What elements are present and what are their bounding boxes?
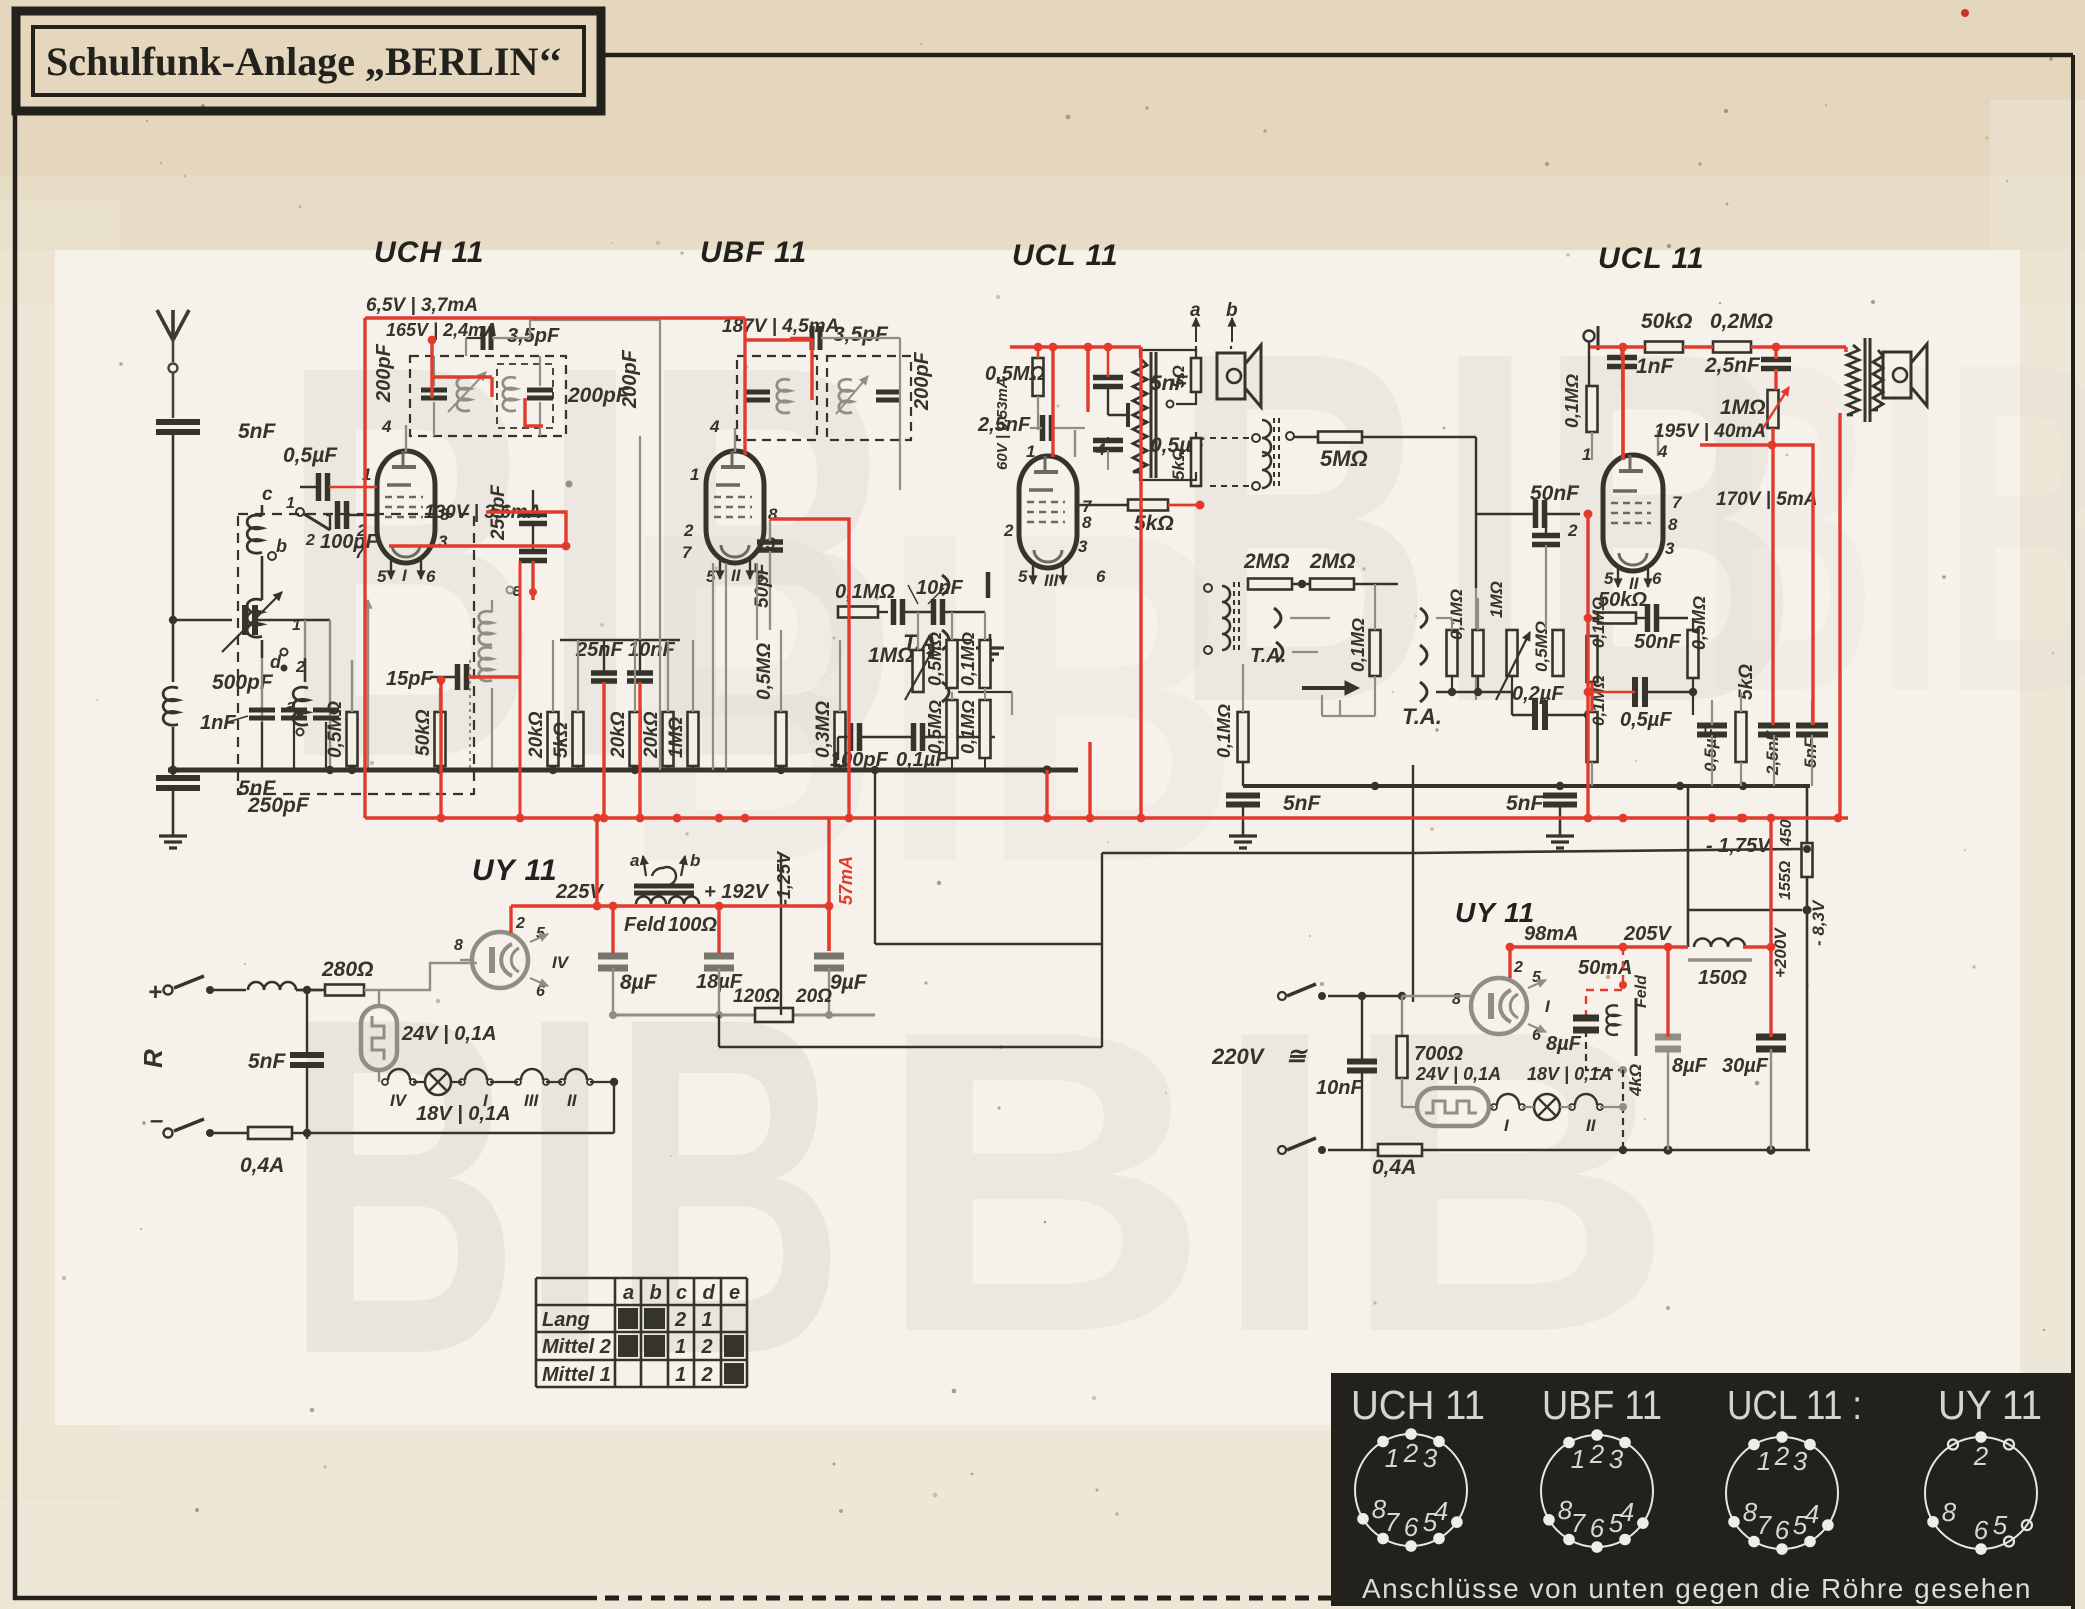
svg-text:5nF: 5nF xyxy=(1506,792,1545,815)
wire psu right top xyxy=(1688,786,1807,1150)
svg-text:T.A.: T.A. xyxy=(1250,645,1286,667)
svg-text:250pF: 250pF xyxy=(247,794,310,817)
svg-text:5: 5 xyxy=(1604,569,1614,588)
svg-text:- 1,75V: - 1,75V xyxy=(1706,835,1772,857)
capacitor 1nF group xyxy=(200,710,339,770)
svg-text:0,4A: 0,4A xyxy=(240,1154,284,1177)
svg-text:Schulfunk-Anlage „BERLIN‘‘: Schulfunk-Anlage „BERLIN‘‘ xyxy=(46,39,562,84)
capacitor 0,5uF xyxy=(283,444,365,501)
coil osc lower xyxy=(470,647,492,770)
svg-text:e: e xyxy=(729,1282,740,1304)
output transformer right xyxy=(1847,338,1883,422)
svg-text:UCH 11: UCH 11 xyxy=(1351,1382,1485,1428)
svg-text:0,5MΩ: 0,5MΩ xyxy=(925,700,945,754)
tube socket UCH11 xyxy=(1355,1434,1467,1546)
capacitor 2,5nF r2 xyxy=(1758,726,1790,787)
label +192V xyxy=(704,881,770,903)
capacitor 0,5uF ucl xyxy=(1093,434,1205,470)
resistor 450/155 Ohm chain xyxy=(1777,786,1813,915)
border frame line bottom xyxy=(13,1596,1335,1601)
svg-text:5: 5 xyxy=(1609,1508,1624,1538)
coil IF1b xyxy=(503,377,516,411)
svg-text:1: 1 xyxy=(1026,442,1035,461)
capacitor 10nF psu2 xyxy=(1316,996,1377,1150)
output jacks dashed xyxy=(1210,434,1260,490)
svg-text:50kΩ: 50kΩ xyxy=(413,709,434,756)
antenna xyxy=(157,310,189,418)
red wire UCL-left anode network xyxy=(1010,343,1141,818)
svg-text:2: 2 xyxy=(683,521,694,540)
svg-text:0,1MΩ: 0,1MΩ xyxy=(1562,374,1582,428)
svg-text:T.A.: T.A. xyxy=(1402,704,1442,729)
svg-text:1MΩ: 1MΩ xyxy=(868,644,914,667)
label 200pF right xyxy=(567,384,630,407)
phone plug xyxy=(1302,681,1375,716)
svg-text:1MΩ: 1MΩ xyxy=(1720,396,1766,419)
capacitor 0,5uF r2 xyxy=(1697,700,1727,786)
svg-text:0,5MΩ: 0,5MΩ xyxy=(754,643,775,700)
ground symbol antenna xyxy=(159,822,187,848)
svg-text:UCL 11: UCL 11 xyxy=(1012,239,1119,272)
resistor 50kOhm mid xyxy=(1598,589,1647,624)
svg-text:d: d xyxy=(703,1282,716,1304)
pin labels UBF11 xyxy=(682,417,778,586)
wire caps 25nF top xyxy=(560,639,680,641)
svg-text:50pF: 50pF xyxy=(752,562,773,608)
svg-text:5nF: 5nF xyxy=(1801,737,1820,768)
resistor 0,3MOhm xyxy=(813,640,846,770)
wire tuner verticals xyxy=(262,600,372,770)
svg-text:0,2µF: 0,2µF xyxy=(1512,683,1564,705)
svg-text:b: b xyxy=(690,851,700,870)
svg-text:0,4A: 0,4A xyxy=(1372,1156,1416,1179)
svg-text:0,2MΩ: 0,2MΩ xyxy=(1710,310,1773,333)
terminal T.A. group mid xyxy=(903,572,1012,715)
svg-text:8: 8 xyxy=(1452,991,1461,1008)
wire mix bus xyxy=(1436,598,1512,696)
tube UCL11 right xyxy=(1603,430,1663,593)
ballast tube right xyxy=(1402,1064,1501,1126)
capacitor 8uF psu3 xyxy=(1655,1037,1708,1150)
potentiometer 1MOhm r xyxy=(1720,387,1789,433)
tube socket UBF11 xyxy=(1541,1435,1653,1547)
red wire IF1 anode taps xyxy=(428,336,543,426)
svg-text:a: a xyxy=(630,851,639,870)
resistor 0,1MOhm r2 xyxy=(1587,675,1609,786)
svg-text:3: 3 xyxy=(1078,537,1088,556)
potentiometer 1MOhm mid xyxy=(868,644,934,700)
svg-text:0,1MΩ: 0,1MΩ xyxy=(1348,618,1368,672)
svg-text:7: 7 xyxy=(1571,1508,1587,1538)
red wire AVC caps xyxy=(604,682,640,818)
choke 150 Ohm xyxy=(1688,939,1752,990)
red dashed box 50mA xyxy=(1586,947,1627,1018)
svg-text:7: 7 xyxy=(1757,1510,1773,1540)
red wire UCL-right grid/anode network xyxy=(1584,343,1846,818)
svg-text:BIB: BIB xyxy=(1700,265,2085,790)
tube UCL11 left xyxy=(1019,430,1077,590)
svg-text:5: 5 xyxy=(1423,1507,1438,1537)
wire pin1 red stub xyxy=(365,486,377,489)
svg-text:25nF: 25nF xyxy=(575,639,623,661)
svg-text:c: c xyxy=(676,1282,687,1304)
svg-text:2: 2 xyxy=(295,659,305,676)
capacitor 5nF psu xyxy=(248,986,324,1139)
svg-text:b: b xyxy=(276,536,287,556)
svg-text:7: 7 xyxy=(1385,1507,1401,1537)
svg-text:8µF: 8µF xyxy=(620,971,658,994)
resistor 5kΩ at x578 xyxy=(551,640,584,770)
resistor mix2 xyxy=(1473,630,1484,676)
psu gray bus xyxy=(609,1011,875,1019)
svg-text:3: 3 xyxy=(1609,1444,1624,1474)
switch contact b xyxy=(268,536,287,560)
node antenna-tuner xyxy=(169,616,177,624)
wire psu bottom xyxy=(303,1078,618,1137)
wire switch c to cap xyxy=(326,515,330,530)
resistor 0,1MOhm low xyxy=(958,688,991,770)
svg-text:15pF: 15pF xyxy=(386,668,433,690)
resistor 20kΩ at x553 xyxy=(526,640,559,770)
svg-text:50mA: 50mA xyxy=(1578,957,1632,979)
wire 5M down xyxy=(1475,437,1477,700)
svg-text:195V | 40mA: 195V | 40mA xyxy=(1654,421,1766,442)
band switch table xyxy=(536,1278,747,1387)
terminal minus xyxy=(150,1107,248,1138)
label 57mA rot xyxy=(836,856,856,905)
capacitor row mixer xyxy=(830,723,995,771)
label UCH11 xyxy=(374,236,484,269)
svg-text:280Ω: 280Ω xyxy=(321,958,373,981)
svg-text:0,1MΩ: 0,1MΩ xyxy=(1447,589,1466,640)
svg-text:2: 2 xyxy=(1973,1441,1989,1471)
svg-text:2: 2 xyxy=(515,915,525,932)
coil antenna bottom xyxy=(163,620,178,770)
svg-text:8: 8 xyxy=(1942,1497,1957,1527)
title box xyxy=(16,11,601,111)
tube UCH11 xyxy=(377,425,435,585)
svg-text:1: 1 xyxy=(1757,1446,1771,1476)
label UCL11 left xyxy=(1012,239,1119,272)
resistor 2MOhm a xyxy=(1243,550,1310,590)
svg-text:Anschlüsse von unten gegen die: Anschlüsse von unten gegen die Röhre ges… xyxy=(1362,1573,2032,1604)
svg-text:1: 1 xyxy=(286,495,295,512)
resistor 700 Ohm xyxy=(1397,1036,1464,1107)
svg-text:d: d xyxy=(270,652,282,672)
svg-text:6,5V | 3,7mA: 6,5V | 3,7mA xyxy=(366,295,478,316)
svg-text:4kΩ: 4kΩ xyxy=(1626,1064,1645,1097)
svg-text:a: a xyxy=(1190,300,1201,321)
tube UY11 left xyxy=(472,932,528,988)
svg-text:2MΩ: 2MΩ xyxy=(1243,550,1290,573)
svg-text:III: III xyxy=(524,1091,539,1110)
wire tube8 right xyxy=(1402,996,1471,1036)
label 60V rot xyxy=(994,377,1011,470)
resistor 0,2MOhm top xyxy=(1710,310,1773,353)
svg-text:1: 1 xyxy=(675,1364,686,1386)
label 200pF rot right xyxy=(911,351,933,411)
svg-text:5nF: 5nF xyxy=(248,1050,287,1073)
red wire PSU right 205V rail xyxy=(1506,814,1776,1037)
label 250pF bottom xyxy=(247,794,310,817)
coil mains filter xyxy=(248,982,322,990)
node ground-bus-left xyxy=(169,766,178,775)
label R mains xyxy=(138,1049,168,1068)
microphone symbol xyxy=(1584,326,1599,386)
resistor 0,1MOhm mix1 xyxy=(1447,589,1467,676)
svg-text:3: 3 xyxy=(438,532,448,551)
svg-text:2: 2 xyxy=(1513,959,1523,976)
svg-text:5: 5 xyxy=(1993,1510,2008,1540)
terminal plus xyxy=(148,976,246,1006)
label 4kOhm xyxy=(1626,1064,1645,1097)
svg-text:5: 5 xyxy=(377,567,387,586)
label -125V rot xyxy=(774,850,794,905)
capacitor IF2b xyxy=(836,376,900,414)
lamp chain right xyxy=(1489,1064,1623,1135)
wire pin7 to 5k xyxy=(1077,501,1205,510)
switch contact e xyxy=(507,580,538,600)
terminal jacks TA mid xyxy=(1402,608,1442,729)
wire mixer mid xyxy=(918,612,985,650)
switch contact d xyxy=(270,617,305,676)
svg-text:150Ω: 150Ω xyxy=(1698,967,1747,989)
svg-text:0,5MΩ: 0,5MΩ xyxy=(325,701,346,758)
resistor 120 Ohm psu xyxy=(733,986,832,1022)
svg-text:57mA: 57mA xyxy=(836,856,856,905)
svg-text:1: 1 xyxy=(292,617,301,634)
secondary 5kOhm xyxy=(1140,432,1201,486)
svg-text:9µF: 9µF xyxy=(830,971,868,994)
svg-text:+: + xyxy=(148,979,162,1006)
svg-text:6: 6 xyxy=(1974,1515,1989,1545)
resistor 0,1MOhm mid2 xyxy=(958,632,991,688)
svg-text:2MΩ: 2MΩ xyxy=(1309,550,1356,573)
svg-text:0,5µF: 0,5µF xyxy=(1620,709,1672,731)
capacitor 5nF ucl xyxy=(1093,347,1189,427)
svg-text:UCL 11: UCL 11 xyxy=(1598,242,1705,275)
svg-text:a: a xyxy=(286,696,296,716)
potentiometer 1MOhm mix xyxy=(1487,581,1530,700)
capacitor 3,5pF b xyxy=(790,323,900,350)
svg-text:–: – xyxy=(150,1107,163,1134)
switch contact a xyxy=(286,696,304,736)
border frame line left xyxy=(13,108,18,1600)
ground bus left xyxy=(168,765,1078,774)
svg-text:a: a xyxy=(623,1282,634,1304)
svg-text:7: 7 xyxy=(682,543,693,562)
svg-text:0,1MΩ: 0,1MΩ xyxy=(1589,597,1608,648)
label +200V rot xyxy=(1771,927,1790,978)
label 225V xyxy=(555,881,604,903)
svg-text:2: 2 xyxy=(1403,1438,1419,1468)
capacitor IF2a xyxy=(746,379,790,413)
svg-text:II: II xyxy=(567,1091,578,1110)
svg-text:50nF: 50nF xyxy=(1634,631,1681,653)
ground bus right section xyxy=(1243,782,1810,790)
band switch dashed box xyxy=(238,514,474,794)
svg-text:20kΩ: 20kΩ xyxy=(641,711,662,759)
svg-text:0,1MΩ: 0,1MΩ xyxy=(958,632,978,686)
capacitor 5nF lower xyxy=(156,770,277,822)
fuse 0,4A right xyxy=(1372,1144,1810,1179)
svg-text:2,5nF: 2,5nF xyxy=(1704,354,1761,377)
svg-text:450: 450 xyxy=(1778,819,1795,847)
svg-text:6: 6 xyxy=(1404,1512,1419,1542)
switch mains a xyxy=(1278,984,1406,1000)
svg-text:UBF 11: UBF 11 xyxy=(700,236,807,269)
svg-text:120Ω: 120Ω xyxy=(733,986,780,1007)
resistor 0,5MOhm xyxy=(325,660,358,770)
svg-text:165V | 2,4mA: 165V | 2,4mA xyxy=(386,320,497,340)
svg-text:1MΩ: 1MΩ xyxy=(1487,581,1506,618)
capacitor 0,2uF xyxy=(1512,683,1592,730)
svg-text:2,5nF: 2,5nF xyxy=(1763,730,1782,776)
capacitor 50pF xyxy=(752,520,783,630)
svg-text:1: 1 xyxy=(702,1309,713,1331)
svg-text:0,1MΩ: 0,1MΩ xyxy=(958,700,978,754)
svg-text:4: 4 xyxy=(709,417,720,436)
BIB watermarks xyxy=(280,247,2085,1454)
wire psu misc xyxy=(719,765,1413,1047)
microphone transformer xyxy=(1204,582,1239,654)
capacitor 5nF gnd mid xyxy=(1506,792,1577,822)
resistor 50kOhm top xyxy=(1641,310,1692,353)
svg-text:6: 6 xyxy=(1096,567,1106,586)
speaker right xyxy=(1883,344,1927,406)
red wire osc feed xyxy=(437,561,533,818)
switch contact c xyxy=(262,484,330,549)
red wire B+ feed UCH top run xyxy=(365,318,745,818)
label 130V/3,6mA xyxy=(424,502,541,523)
capacitor 10nF xyxy=(627,639,675,818)
capacitor 2,5nF r xyxy=(1704,347,1791,377)
capacitor 15pF xyxy=(386,664,467,690)
label 6,5V/3,7mA xyxy=(366,295,478,316)
resistor 20kΩ at x668 xyxy=(641,640,674,770)
pin labels UCL11 right xyxy=(1567,442,1683,588)
svg-text:Feld: Feld xyxy=(1633,974,1650,1008)
red bus main B+ xyxy=(365,742,1848,951)
capacitor 3,5pF xyxy=(466,325,560,350)
label 200pF rot xyxy=(373,343,395,403)
svg-text:0,5MΩ: 0,5MΩ xyxy=(925,632,945,686)
resistor 5 Ohm out xyxy=(1140,350,1201,408)
svg-text:5MΩ: 5MΩ xyxy=(1320,446,1368,471)
capacitor 5nF antenna xyxy=(156,420,277,618)
resistor 5kOhm out xyxy=(1128,500,1174,536)
tube socket UCL11 xyxy=(1726,1437,1838,1549)
svg-text:50nF: 50nF xyxy=(1530,482,1580,505)
svg-text:60V | 0,53mA: 60V | 0,53mA xyxy=(994,377,1011,470)
output transformer left xyxy=(1133,352,1156,478)
lamp chain left xyxy=(382,1069,614,1125)
resistor 0,1MOhm r1 xyxy=(1587,597,1609,682)
pin labels UY11 right xyxy=(1452,959,1551,1044)
svg-text:5: 5 xyxy=(1018,567,1028,586)
svg-text:5Ω: 5Ω xyxy=(1169,365,1188,388)
tube socket UY11 xyxy=(1925,1437,2037,1549)
capacitor 50nF cathode xyxy=(1532,514,1560,630)
svg-text:1: 1 xyxy=(1582,445,1591,464)
capacitor 100pF xyxy=(320,501,379,553)
speaker left xyxy=(1190,300,1261,407)
tube UBF11 xyxy=(706,428,764,585)
resistor 1MΩ at x693 xyxy=(666,640,699,770)
label 187V/4,5mA xyxy=(722,316,839,337)
svg-text:8: 8 xyxy=(1668,515,1678,534)
svg-text:0,5µF: 0,5µF xyxy=(283,444,338,467)
svg-text:Mittel 1: Mittel 1 xyxy=(542,1364,611,1386)
svg-text:Feld: Feld xyxy=(624,914,666,936)
wires UBF verticals xyxy=(640,356,757,770)
svg-text:0,5MΩ: 0,5MΩ xyxy=(1532,621,1551,672)
svg-text:200pF: 200pF xyxy=(911,351,933,411)
svg-text:4: 4 xyxy=(1657,442,1668,461)
resistor 5kOhm r xyxy=(1736,664,1758,786)
tube socket panel xyxy=(1331,1373,2071,1606)
svg-text:2: 2 xyxy=(1003,521,1014,540)
capacitor 50nF mid xyxy=(1588,604,1688,653)
transformer Feld 100 Ohm xyxy=(624,851,717,936)
svg-text:III: III xyxy=(1044,571,1059,590)
svg-text:c: c xyxy=(262,484,273,505)
pin labels UCH11 xyxy=(355,417,450,586)
label 50mA xyxy=(1578,957,1632,979)
ground symbol right b xyxy=(1546,822,1574,848)
svg-text:- 8,3V: - 8,3V xyxy=(1809,899,1828,946)
capacitor 5nF gnd left xyxy=(1226,792,1322,822)
svg-text:5: 5 xyxy=(706,567,716,586)
capacitor 8uF psu xyxy=(598,956,658,1015)
svg-text:1nF: 1nF xyxy=(1636,355,1675,378)
line transformer small xyxy=(1262,418,1294,490)
svg-text:18V | 0,1A: 18V | 0,1A xyxy=(1527,1064,1612,1084)
svg-text:20kΩ: 20kΩ xyxy=(608,711,629,759)
svg-text:2: 2 xyxy=(701,1336,713,1358)
svg-text:0,5µF: 0,5µF xyxy=(1701,728,1720,772)
svg-text:5nF: 5nF xyxy=(238,420,277,443)
red wire 130V triode anode xyxy=(389,512,570,550)
IF transformer 2 dashed box xyxy=(737,356,911,440)
svg-text:8: 8 xyxy=(1558,1495,1573,1525)
dashed wire 4k xyxy=(1619,1070,1627,1150)
red wire PSU left 225V rail xyxy=(511,902,833,954)
capacitor 18uF psu xyxy=(696,956,743,1015)
svg-text:II: II xyxy=(731,566,742,585)
svg-text:0,1MΩ: 0,1MΩ xyxy=(835,581,895,603)
coil L2 xyxy=(293,658,308,725)
label 195V/40mA xyxy=(1654,421,1766,442)
resistor 0,1MOhm ta2 xyxy=(1214,664,1249,786)
svg-text:-1,25V: -1,25V xyxy=(774,850,794,905)
svg-text:≅: ≅ xyxy=(1286,1043,1308,1070)
capacitor 1nF xyxy=(1607,347,1675,390)
wire antenna to tuner xyxy=(173,619,232,622)
label 165V/2,4mA xyxy=(386,320,497,340)
svg-text:500pF: 500pF xyxy=(212,671,274,694)
svg-text:1: 1 xyxy=(1571,1444,1585,1474)
label -8,3V rot xyxy=(1809,899,1828,946)
pin labels UY11 left xyxy=(454,915,570,1000)
svg-text:5nF: 5nF xyxy=(1283,792,1322,815)
svg-text:170V | 5mA: 170V | 5mA xyxy=(1716,489,1817,510)
svg-text:Mittel 2: Mittel 2 xyxy=(542,1336,611,1358)
ballast tube left xyxy=(361,990,497,1082)
svg-text:2: 2 xyxy=(1589,1439,1605,1469)
svg-text:50kΩ: 50kΩ xyxy=(1641,310,1692,333)
ground symbol right a xyxy=(1229,822,1257,848)
